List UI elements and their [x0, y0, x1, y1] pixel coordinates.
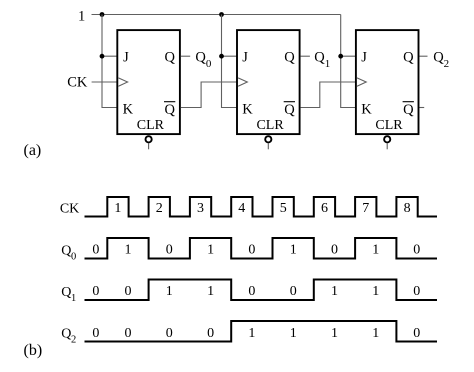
- svg-text:(a): (a): [24, 142, 42, 159]
- svg-text:1: 1: [166, 284, 173, 299]
- wire: U2 CLR stub: [267, 143, 269, 149]
- Q0 waveform trace: [85, 238, 438, 259]
- CK waveform trace: [85, 197, 438, 217]
- junction at FF3 J branch: [338, 54, 343, 59]
- wire: U1 Q output stub: [181, 55, 190, 57]
- svg-text:Q: Q: [165, 102, 176, 118]
- svg-text:Q: Q: [61, 327, 71, 342]
- wire: U1 CLR stub: [148, 143, 150, 149]
- svg-text:0: 0: [92, 284, 99, 299]
- svg-text:0: 0: [290, 284, 297, 299]
- flip-flop U2 (J-K) box: [237, 30, 300, 134]
- svg-text:K: K: [123, 101, 134, 117]
- wire: 1-bus down to FF3 J and K: [341, 15, 356, 108]
- svg-text:0: 0: [166, 242, 173, 257]
- svg-text:1: 1: [290, 326, 297, 341]
- wire: 1-bus down to FF2 J and K: [222, 15, 238, 108]
- svg-text:CK: CK: [60, 202, 79, 217]
- svg-text:Q: Q: [403, 50, 414, 66]
- svg-text:1: 1: [71, 293, 76, 304]
- svg-text:0: 0: [92, 242, 99, 257]
- CK pulse numbers 1-8: [114, 201, 410, 216]
- svg-text:8: 8: [404, 201, 411, 216]
- U2 clock triangle: [238, 78, 247, 86]
- U3 clock triangle: [357, 78, 366, 86]
- Q0 bit values: [92, 242, 420, 257]
- junction on 1-bus to FF1: [100, 12, 105, 17]
- svg-text:4: 4: [238, 201, 245, 216]
- junction on 1-bus to FF2: [219, 12, 224, 17]
- svg-text:7: 7: [362, 201, 369, 216]
- flip-flop U3 (J-K) box: [356, 30, 419, 134]
- Q1 waveform trace: [85, 280, 438, 301]
- svg-text:0: 0: [413, 326, 420, 341]
- svg-text:0: 0: [166, 326, 173, 341]
- svg-text:Q: Q: [61, 243, 71, 258]
- svg-text:Q: Q: [284, 50, 295, 66]
- svg-text:2: 2: [156, 201, 163, 216]
- svg-text:J: J: [361, 50, 367, 66]
- svg-text:Q: Q: [284, 102, 295, 118]
- wire: 1-bus down to FF1 J and K: [102, 15, 117, 108]
- svg-text:1: 1: [290, 242, 297, 257]
- svg-text:K: K: [361, 101, 372, 117]
- svg-text:0: 0: [248, 284, 255, 299]
- svg-text:K: K: [242, 101, 253, 117]
- svg-text:0: 0: [248, 242, 255, 257]
- svg-text:1: 1: [207, 284, 214, 299]
- svg-text:1: 1: [331, 326, 338, 341]
- svg-text:0: 0: [125, 326, 132, 341]
- svg-text:3: 3: [197, 201, 204, 216]
- wire: U3 Qbar stub: [420, 107, 425, 109]
- svg-text:1: 1: [114, 201, 121, 216]
- wire: U3 CLR stub: [386, 143, 388, 149]
- svg-text:2: 2: [71, 335, 76, 346]
- U2 CLR bubble: [265, 136, 271, 142]
- Q1 bit values: [92, 284, 420, 299]
- svg-text:0: 0: [413, 242, 420, 257]
- svg-text:1: 1: [331, 284, 338, 299]
- svg-text:0: 0: [71, 251, 76, 262]
- svg-text:0: 0: [413, 284, 420, 299]
- svg-text:1: 1: [78, 8, 85, 24]
- flip-flop U1 (J-K) box: [117, 30, 180, 134]
- Q2 bit values: [92, 326, 420, 341]
- svg-text:1: 1: [372, 326, 379, 341]
- U3 CLR bubble: [384, 136, 390, 142]
- svg-text:Q: Q: [61, 285, 71, 300]
- svg-text:CLR: CLR: [256, 118, 284, 133]
- wire: CK to FF1 clock: [92, 81, 118, 83]
- svg-text:J: J: [123, 50, 129, 66]
- svg-text:1: 1: [125, 242, 132, 257]
- svg-text:1: 1: [248, 326, 255, 341]
- svg-text:(b): (b): [24, 342, 43, 359]
- svg-text:Q: Q: [165, 50, 176, 66]
- svg-text:5: 5: [280, 201, 287, 216]
- junction at FF2 J branch: [219, 54, 224, 59]
- svg-text:CLR: CLR: [137, 118, 165, 133]
- svg-text:Q: Q: [403, 102, 414, 118]
- wire: U2 Q output stub: [301, 55, 310, 57]
- wire: logic-1 bus along top: [92, 14, 341, 16]
- wire: U3 Q output stub: [420, 55, 428, 57]
- junction at FF1 J branch: [100, 54, 105, 59]
- svg-text:CLR: CLR: [375, 118, 403, 133]
- svg-text:0: 0: [92, 326, 99, 341]
- svg-text:0: 0: [331, 242, 338, 257]
- U1 clock triangle: [118, 78, 127, 86]
- svg-text:1: 1: [372, 242, 379, 257]
- svg-text:1: 1: [372, 284, 379, 299]
- wire: U1 Qbar to U2 clock: [181, 82, 237, 108]
- svg-text:1: 1: [207, 242, 214, 257]
- svg-text:J: J: [242, 50, 248, 66]
- svg-text:0: 0: [207, 326, 214, 341]
- wire: U2 Qbar to U3 clock: [301, 82, 356, 108]
- svg-text:CK: CK: [67, 75, 88, 91]
- svg-text:0: 0: [125, 284, 132, 299]
- svg-text:6: 6: [321, 201, 328, 216]
- U1 CLR bubble: [146, 136, 152, 142]
- Q2 waveform trace: [85, 321, 438, 342]
